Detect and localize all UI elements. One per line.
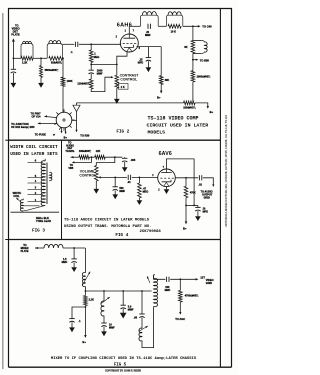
svg-text:TO R56: TO R56 [200, 58, 210, 62]
tap 4 [28, 182, 43, 184]
svg-text:MMF: MMF [128, 308, 134, 311]
wire around to winding bottom [142, 306, 154, 347]
tap 1 [28, 201, 43, 203]
wire grid to tube pin [120, 43, 122, 46]
svg-text:FIG 2: FIG 2 [116, 129, 129, 134]
svg-text:100&#937;: 100&#937; [183, 106, 196, 109]
resistor R11 39K screen [160, 47, 162, 76]
ground [137, 201, 142, 205]
wire [84, 306, 86, 336]
svg-text:MMF: MMF [145, 34, 151, 37]
svg-text:USING OUTPUT TRANS. MOTOROLA: USING OUTPUT TRANS. MOTOROLA PART NO. [64, 225, 151, 229]
divider between FIG 2 and FIG 3/4 [9, 139, 221, 141]
svg-text:OF R62 &amp; R63: OF R62 &amp; R63 [11, 125, 35, 129]
svg-text:TO C40: TO C40 [202, 25, 212, 29]
capacitor C11 1.5 MMF [73, 248, 75, 259]
svg-text:TS-118 VIDEO COMP: TS-118 VIDEO COMP [148, 116, 199, 122]
coil L10 trap [103, 291, 105, 301]
resistor R8 8K [191, 41, 195, 54]
wire winding bottom [23, 205, 45, 210]
svg-text:120&#937;: 120&#937; [77, 83, 90, 86]
ground [11, 83, 16, 87]
wire mixer input [35, 247, 38, 249]
svg-text:MMF: MMF [165, 289, 171, 292]
svg-text:CONTROL: CONTROL [120, 78, 137, 82]
wire grid line [79, 43, 121, 45]
svg-text:OF V14: OF V14 [32, 115, 41, 119]
svg-text:10 K: 10 K [171, 31, 176, 34]
ground [113, 195, 118, 199]
svg-text:2 K: 2 K [121, 86, 125, 89]
svg-text:YOKE LEAD: YOKE LEAD [36, 219, 51, 223]
capacitor C5 input bypass [12, 58, 14, 69]
wire socket top pin [63, 111, 64, 113]
svg-text:2900&#937;: 2900&#937; [197, 76, 211, 79]
svg-text:FIG 5: FIG 5 [114, 363, 127, 367]
capacitor C8 .01 coupling [127, 175, 129, 180]
wire to video grid [170, 278, 196, 280]
resistor R3 82 ohm [49, 56, 63, 60]
wire 20MFD branch [186, 204, 198, 206]
svg-text:2.2K: 2.2K [22, 62, 27, 65]
wire audio input [71, 156, 74, 158]
capacitor C2 1000 MMF [90, 64, 92, 70]
wire bus to 100K [61, 57, 64, 59]
wire width coil to winding [23, 205, 39, 207]
wire plate riser [128, 26, 130, 34]
capacitor C9 .02 [198, 175, 200, 180]
svg-text:180&#937;: 180&#937; [79, 150, 92, 153]
svg-text:PLATE: PLATE [21, 250, 29, 253]
svg-text:MMF: MMF [62, 261, 68, 264]
wire link line [85, 290, 151, 292]
coil L5 parallel [193, 40, 201, 42]
svg-text:GRID: GRID [206, 282, 212, 285]
B plus bus [77, 102, 184, 104]
svg-text:TO R39: TO R39 [80, 134, 90, 138]
peaking coil L2 [47, 44, 62, 59]
svg-text:PLATE: PLATE [11, 32, 20, 36]
capacitor C14 3.9 MMF [122, 291, 124, 305]
tap 3 [28, 188, 43, 190]
svg-text:.02: .02 [198, 184, 202, 187]
wire to B+ [160, 85, 162, 92]
ground [70, 328, 75, 332]
capacitor C16 100 MMF [166, 277, 168, 282]
tap 5 [28, 177, 43, 179]
capacitor C13 10 MMF [103, 316, 105, 323]
svg-text:CONTROL: CONTROL [79, 174, 96, 178]
wire socket right to TO R39 [72, 112, 77, 121]
svg-text:B+: B+ [210, 110, 214, 114]
svg-text:6AH6: 6AH6 [117, 22, 132, 28]
ground [146, 68, 151, 72]
svg-text:82&#937;: 82&#937; [51, 61, 62, 64]
wire to audio output grid [203, 178, 213, 185]
svg-text:MEG: MEG [143, 190, 149, 193]
svg-text:25K700088: 25K700088 [140, 230, 162, 234]
svg-text:WIDTH COIL CIRCUIT: WIDTH COIL CIRCUIT [10, 145, 58, 150]
ground [120, 313, 126, 318]
wiper wire [98, 176, 101, 178]
tap 6 [28, 161, 43, 163]
wire to C40 [183, 25, 199, 27]
coil L11 adjustable [139, 328, 142, 341]
divider ticks [5, 139, 8, 141]
wire plate riser [167, 159, 195, 206]
wire to AGC [179, 302, 181, 312]
wire grid line from coil top [62, 43, 74, 45]
svg-text:TO AGC: TO AGC [175, 317, 185, 321]
resistor R1 2.2K [21, 56, 33, 60]
coil L9 tuned [84, 248, 86, 273]
svg-text:22K: 22K [96, 150, 101, 153]
resistor R9 2900 ohm [191, 71, 195, 83]
svg-text:USED IN LATER SETS: USED IN LATER SETS [10, 152, 58, 157]
bottom rule [9, 366, 232, 368]
svg-text:B+: B+ [183, 227, 187, 231]
svg-text:V8B: V8B [68, 167, 73, 170]
svg-text:MMF: MMF [109, 326, 115, 329]
resistor R13 180 ohm [79, 155, 90, 159]
ground [102, 332, 107, 336]
svg-text:MIXER TO IF COUPLING CIRCUIT U: MIXER TO IF COUPLING CIRCUIT USED IN TS-… [51, 357, 197, 361]
svg-text:8K: 8K [184, 46, 187, 49]
wire 120 ohm return to pot wiper [91, 77, 112, 91]
ground [122, 168, 127, 172]
coil L8 [44, 244, 63, 248]
capacitor C15 .68 [141, 291, 143, 314]
coil L6 slug [49, 172, 52, 180]
ground [94, 189, 99, 193]
wire junction to cathode line [91, 63, 117, 65]
peaking coil L3 [141, 15, 159, 26]
svg-text:TRANS.: TRANS. [65, 150, 75, 153]
resistor R19 4700 ohm [179, 279, 181, 290]
peaking coil L1 [21, 44, 33, 59]
transformer T1 width winding [44, 159, 46, 161]
B+ arrow [84, 335, 87, 338]
svg-text:B+: B+ [64, 135, 68, 139]
svg-text:6800&#937;: 6800&#937; [45, 69, 59, 72]
potentiometer R10 contrast 2K [116, 64, 118, 75]
svg-text:TO JUNCTION: TO JUNCTION [11, 122, 29, 126]
tap 2 [28, 194, 43, 196]
svg-text:100K: 100K [67, 80, 73, 83]
resistor R14 22K [95, 155, 106, 159]
svg-text:6AV6: 6AV6 [159, 151, 172, 157]
svg-text:4700&#937;: 4700&#937; [185, 295, 199, 298]
wire to R56 [192, 54, 194, 71]
potentiometer R15 volume [96, 157, 115, 165]
resistor R17 470K [185, 178, 187, 186]
peaking coil L4 [166, 15, 182, 26]
chassis ground lug [76, 103, 78, 105]
transformer T2 IF winding [154, 278, 158, 306]
value box 2K [118, 83, 128, 89]
svg-text:MMF: MMF [119, 190, 125, 193]
wire 100K tap [62, 58, 64, 77]
page left edge shadow [2, 13, 4, 369]
wire input from video det [12, 41, 14, 59]
ground [196, 217, 201, 221]
socket heater pins to B+ [61, 128, 63, 132]
wire to grid [132, 176, 158, 178]
capacitor C3 20 MMF [147, 24, 149, 29]
svg-text:.68: .68 [134, 316, 138, 319]
svg-text:MFD: MFD [138, 61, 144, 64]
svg-text:FIG 4: FIG 4 [115, 233, 128, 238]
wire to V8B [74, 157, 92, 162]
tube screen wire [137, 46, 162, 48]
tube cathode ground [166, 187, 168, 190]
svg-text:.01: .01 [127, 181, 131, 184]
FIG 3 box right edge [61, 140, 63, 240]
resistor R6 100K [61, 77, 65, 87]
svg-text:1ST: 1ST [200, 276, 205, 279]
svg-text:MMF: MMF [97, 72, 103, 75]
svg-text:TO FUSE: TO FUSE [35, 133, 46, 137]
resistor R18 2.2K [84, 291, 86, 296]
svg-text:COPYRIGHT BY JOHN F. RIDER: COPYRIGHT BY JOHN F. RIDER [105, 370, 141, 373]
capacitor C4 .25 MFD [146, 57, 151, 59]
wire plate load drop [192, 26, 194, 40]
wire [33, 57, 47, 59]
ground [72, 268, 77, 272]
svg-text:CIRCUIT USED IN LATER: CIRCUIT USED IN LATER [147, 123, 209, 129]
wire [158, 25, 166, 27]
divider between FIG 3/4 and FIG 5 [9, 239, 221, 241]
svg-text:MODELS: MODELS [148, 130, 166, 136]
capacitor C10 20 MFD [197, 205, 199, 207]
capacitor C7 500 MMF [114, 177, 116, 186]
resistor R2 6800 ohm [40, 58, 42, 65]
svg-text:TS-118 AUDIO CIRCUIT IN LATER: TS-118 AUDIO CIRCUIT IN LATER MODELS [64, 218, 150, 222]
wire [63, 247, 85, 249]
svg-text:2.2K: 2.2K [89, 299, 94, 302]
wire [89, 156, 94, 158]
capacitor C12 .1 [72, 307, 85, 319]
svg-text:39K: 39K [165, 79, 170, 82]
wire diode line [175, 177, 198, 179]
frame inner right rule [219, 9, 221, 368]
wire to B+ bus [192, 82, 194, 103]
svg-text:MOTOROLA MODELS 9VT10R, 9K1, 1: MOTOROLA MODELS 9VT10R, 9K1, 10VK10B, 10… [224, 114, 228, 226]
svg-text:COIL: COIL [13, 194, 20, 198]
wire [105, 156, 122, 158]
svg-text:B+: B+ [157, 96, 161, 100]
wire to B+ arrow [195, 103, 208, 107]
resistor R7 10K [168, 24, 181, 28]
coil L7 width coil [22, 199, 24, 200]
svg-text:.005: .005 [130, 159, 135, 162]
resistor R12 100 ohm [184, 101, 196, 105]
outer frame [9, 9, 232, 368]
ground [115, 99, 120, 103]
svg-text:MFD: MFD [203, 211, 209, 214]
wire to socket [62, 87, 64, 113]
svg-text:GRID: GRID [204, 197, 210, 200]
B+ arrow [185, 221, 188, 224]
svg-text:MEG: MEG [94, 56, 100, 59]
wire to 100 MMF [154, 274, 155, 276]
svg-text:470K: 470K [190, 192, 196, 195]
svg-text:B+: B+ [82, 340, 86, 344]
socket V14 wiring view [56, 112, 72, 128]
resistor R4 1 MEG [90, 44, 92, 50]
FIG 3 inner rule [11, 211, 60, 213]
capacitor C6 .005 [124, 157, 126, 158]
svg-text:FIG 3: FIG 3 [32, 228, 45, 233]
ground [39, 83, 44, 87]
wire signal bus [13, 57, 21, 59]
resistor R16 .47 MEG [138, 177, 140, 183]
resistor R5 120 ohm [89, 79, 93, 89]
tube cathode drop wire [117, 52, 127, 65]
capacitor C1 .1 [74, 42, 76, 47]
